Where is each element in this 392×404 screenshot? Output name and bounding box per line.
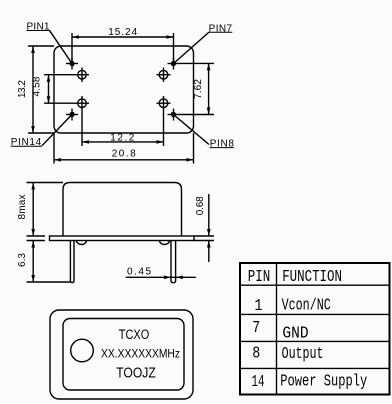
- svg-text:7: 7: [252, 319, 260, 338]
- svg-text:GND: GND: [282, 324, 308, 343]
- lead seal bump right: [160, 241, 170, 245]
- svg-text:PIN: PIN: [248, 268, 271, 287]
- dim 0.68: [194, 194, 214, 262]
- svg-text:14: 14: [252, 373, 265, 392]
- svg-text:Power Supply: Power Supply: [280, 373, 367, 392]
- hole circle top-right: [157, 68, 171, 82]
- dim 7.62 line: [179, 63, 214, 114]
- leader PIN14: [42, 112, 74, 145]
- svg-text:20.8: 20.8: [112, 149, 136, 160]
- top view package outline: [54, 46, 194, 133]
- svg-text:TOOJZ: TOOJZ: [116, 366, 156, 382]
- table outer border: [240, 263, 390, 395]
- table row line 4: [240, 367, 390, 369]
- pin 7 cross: [168, 58, 180, 70]
- leader PIN7: [171, 32, 209, 65]
- dim 20.8 line: [54, 133, 194, 164]
- leader PIN1: [49, 30, 73, 66]
- svg-text:FUNCTION: FUNCTION: [282, 268, 342, 287]
- table row line 1: [240, 284, 390, 286]
- side view can: [63, 183, 182, 237]
- lead seal bump left: [77, 241, 87, 245]
- leader PIN8: [171, 113, 209, 145]
- svg-text:13.2: 13.2: [17, 80, 28, 98]
- svg-text:TCXO: TCXO: [119, 327, 150, 342]
- marking view circle: [71, 339, 94, 362]
- dim 6.3: [27, 241, 71, 283]
- dim 15.24 line: [72, 33, 174, 64]
- svg-text:Output: Output: [282, 345, 324, 364]
- svg-text:4.58: 4.58: [32, 76, 43, 96]
- marking view outer body: [50, 310, 193, 399]
- side view base plate: [50, 236, 195, 241]
- table column divider: [276, 263, 278, 395]
- dim 8max: [27, 183, 64, 237]
- lead right: [171, 241, 176, 283]
- svg-text:6.3: 6.3: [17, 253, 28, 267]
- pin 1 cross: [66, 58, 78, 70]
- svg-text:15.24: 15.24: [108, 27, 137, 38]
- pin 14 cross: [66, 109, 78, 121]
- svg-text:1: 1: [255, 297, 263, 316]
- svg-text:0.45: 0.45: [127, 267, 151, 278]
- dim 12.2 line: [82, 110, 164, 146]
- svg-text:0.68: 0.68: [195, 196, 206, 215]
- svg-text:7.62: 7.62: [193, 79, 204, 99]
- table row line 3: [240, 340, 390, 342]
- svg-text:8: 8: [252, 345, 260, 364]
- dim 13.2 line: [28, 46, 54, 133]
- hole circle bottom-right: [157, 96, 171, 110]
- marking view inner label: [63, 319, 184, 391]
- hole circle top-left: [75, 68, 89, 82]
- pin 8 cross: [168, 109, 180, 121]
- dim 0.45: [126, 276, 196, 280]
- svg-text:8max: 8max: [17, 195, 28, 220]
- svg-text:XX.XXXXXXMHz: XX.XXXXXXMHz: [101, 349, 180, 361]
- svg-text:12.2: 12.2: [110, 133, 134, 144]
- lead left: [70, 241, 74, 283]
- hole circle bottom-left: [75, 96, 89, 110]
- dim 4.58 line: [44, 75, 75, 104]
- table row line 2: [240, 313, 390, 315]
- svg-text:Vcon/NC: Vcon/NC: [282, 297, 331, 316]
